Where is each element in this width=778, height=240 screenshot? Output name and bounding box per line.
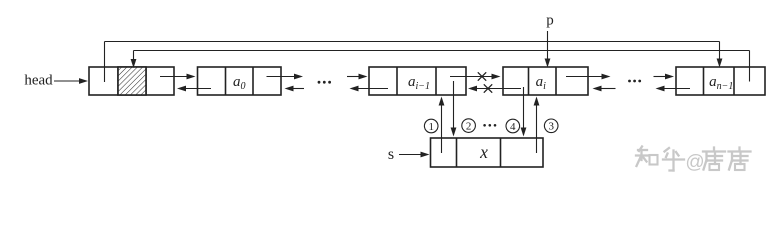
svg-text:x: x: [479, 142, 488, 162]
svg-text:1: 1: [428, 121, 434, 133]
svg-text:head: head: [24, 73, 53, 89]
svg-text:3: 3: [548, 121, 554, 133]
svg-text:@: @: [685, 152, 704, 173]
svg-text:4: 4: [510, 121, 516, 133]
svg-text:s: s: [388, 146, 394, 163]
svg-text:p: p: [546, 13, 554, 29]
svg-text:2: 2: [466, 120, 472, 132]
